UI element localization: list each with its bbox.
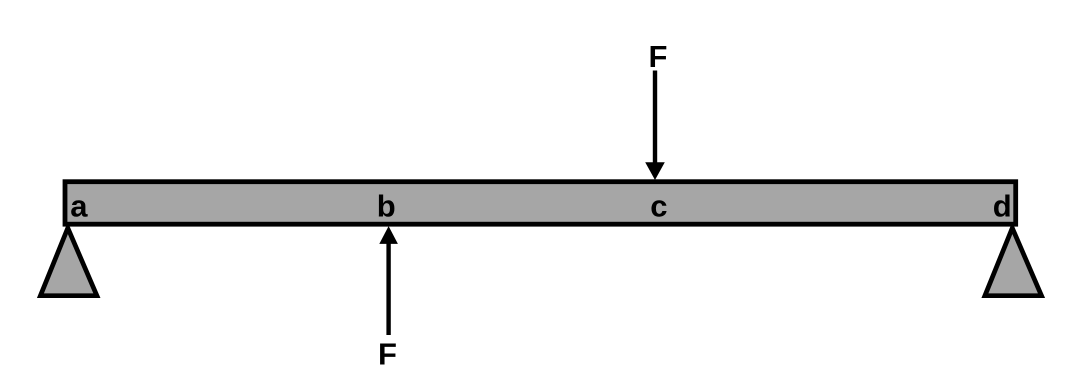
force F arrow up at b: shaft [386,241,390,335]
force F arrow down at c: head [645,162,665,180]
svg-text:F: F [649,39,668,74]
force F arrow up at b: head [379,226,398,244]
svg-text:c: c [650,189,667,224]
support at a (pin, triangle) [40,228,97,296]
svg-text:F: F [378,337,397,372]
force F arrow down at c: shaft [653,71,657,166]
beam ad [65,182,1016,225]
svg-text:d: d [993,189,1012,224]
svg-text:b: b [377,189,396,224]
svg-text:a: a [70,189,88,224]
support at d (pin, triangle) [985,228,1042,296]
